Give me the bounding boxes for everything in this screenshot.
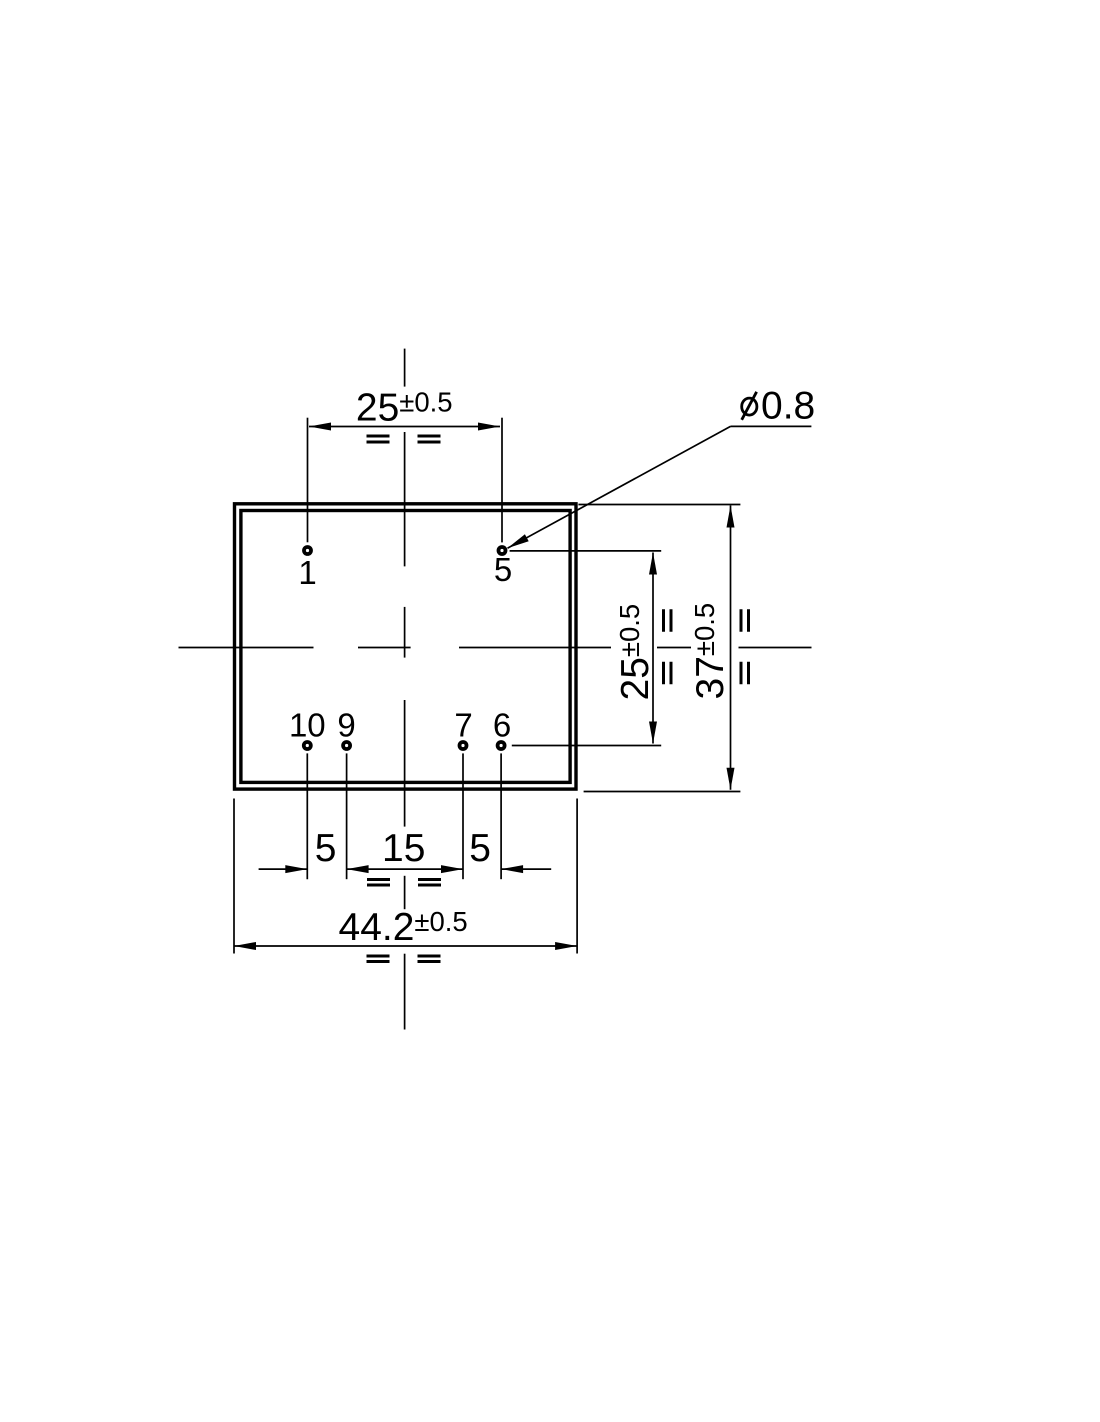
svg-text:15: 15	[382, 827, 425, 870]
svg-text:5: 5	[315, 827, 337, 870]
svg-text:9: 9	[337, 706, 355, 743]
svg-text:5: 5	[469, 827, 491, 870]
svg-text:0.8: 0.8	[761, 385, 815, 428]
svg-text:7: 7	[454, 706, 472, 743]
svg-text:1: 1	[298, 554, 316, 591]
svg-text:5: 5	[494, 551, 512, 588]
svg-text:6: 6	[493, 706, 511, 743]
svg-text:10: 10	[289, 706, 326, 743]
